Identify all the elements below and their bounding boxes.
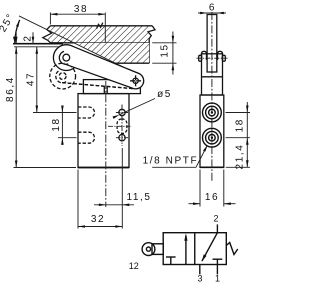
centerline front [105,81,107,207]
dim 6 [198,12,226,14]
valve body front [78,94,129,168]
side body [200,95,224,167]
dim 25deg arc [15,20,20,44]
svg-text:32: 32 [91,214,105,225]
rail top-edge break mark [97,23,103,29]
exhaust path right box [202,233,217,261]
svg-text:16: 16 [205,192,219,203]
dim 32 [77,170,79,229]
trip dog rail (hatched) [43,26,149,43]
svg-text:38: 38 [74,4,88,15]
svg-text:6: 6 [209,3,216,14]
flow arrow left box [185,236,187,265]
blocked port T right box [216,259,218,264]
dim 86,4 [15,47,17,168]
svg-text:86,4: 86,4 [5,76,16,102]
port stubs [216,224,218,232]
pivot pin [133,78,138,83]
head block [83,80,140,94]
dim 2 [15,32,17,43]
side view stem [207,15,217,73]
roller pin [63,54,70,61]
side centerline [211,12,213,182]
svg-text:2: 2 [213,214,218,224]
dim 18 front [61,106,63,146]
svg-text:47: 47 [26,72,37,86]
svg-text:18: 18 [51,117,62,131]
return spring [226,243,238,255]
fork crossbar [202,76,223,78]
svg-text:3: 3 [197,274,202,284]
25 deg construction line [19,16,134,72]
svg-text:15: 15 [159,43,170,57]
svg-text:11,5: 11,5 [126,192,151,203]
svg-text:1: 1 [215,274,220,284]
hidden slot [117,119,127,134]
roller (solid) [53,45,79,71]
hidden port bosses left [78,107,95,118]
dashed lever lines over head [64,63,136,73]
lever strap fill [64,46,144,89]
dim 16 [199,170,201,207]
fork tabs [202,51,207,60]
mounting holes front [119,109,125,115]
trip dog lower block (hatched) [74,43,149,63]
side ports [203,103,222,122]
pneumatic 3/2 valve symbol [163,233,226,265]
svg-text:18: 18 [235,118,246,132]
svg-text:ø5: ø5 [157,89,172,100]
roller lever actuated position (dashed) [50,63,76,89]
svg-text:12: 12 [129,261,139,271]
lever strap outline [71,46,138,74]
roller pin ends [199,55,202,61]
svg-text:1/8 NPTF: 1/8 NPTF [143,156,199,167]
plunger [103,87,105,94]
blocked port T left box [170,257,172,265]
svg-text:2: 2 [23,34,34,41]
contact line (thick) [13,43,63,45]
dims 18 / 21,4 side [226,112,251,114]
switch plane line (thin) [14,46,59,48]
svg-text:21,4: 21,4 [235,144,246,170]
dim 47 [36,47,38,113]
dim 38 [49,13,51,25]
fork [202,54,223,95]
dim 15 [152,42,176,44]
dim 11,5 [121,148,123,229]
roller actuator [152,244,163,255]
rail right edge with break [148,26,155,63]
